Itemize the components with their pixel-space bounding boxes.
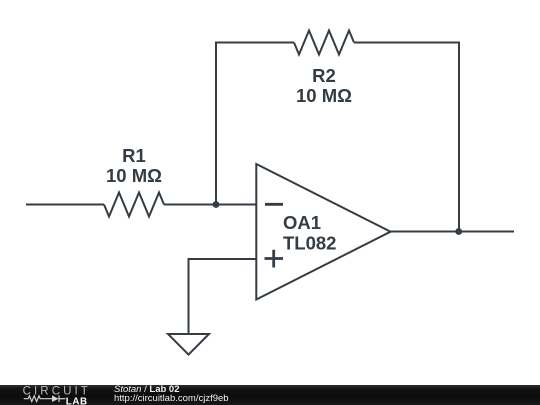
svg-text:R1: R1: [122, 145, 146, 166]
svg-text:LAB: LAB: [66, 396, 88, 405]
svg-text:R2: R2: [312, 65, 336, 86]
svg-text:OA1: OA1: [283, 212, 321, 233]
svg-text:TL082: TL082: [283, 233, 336, 254]
svg-text:10 MΩ: 10 MΩ: [106, 165, 162, 186]
svg-text:10 MΩ: 10 MΩ: [296, 85, 352, 106]
